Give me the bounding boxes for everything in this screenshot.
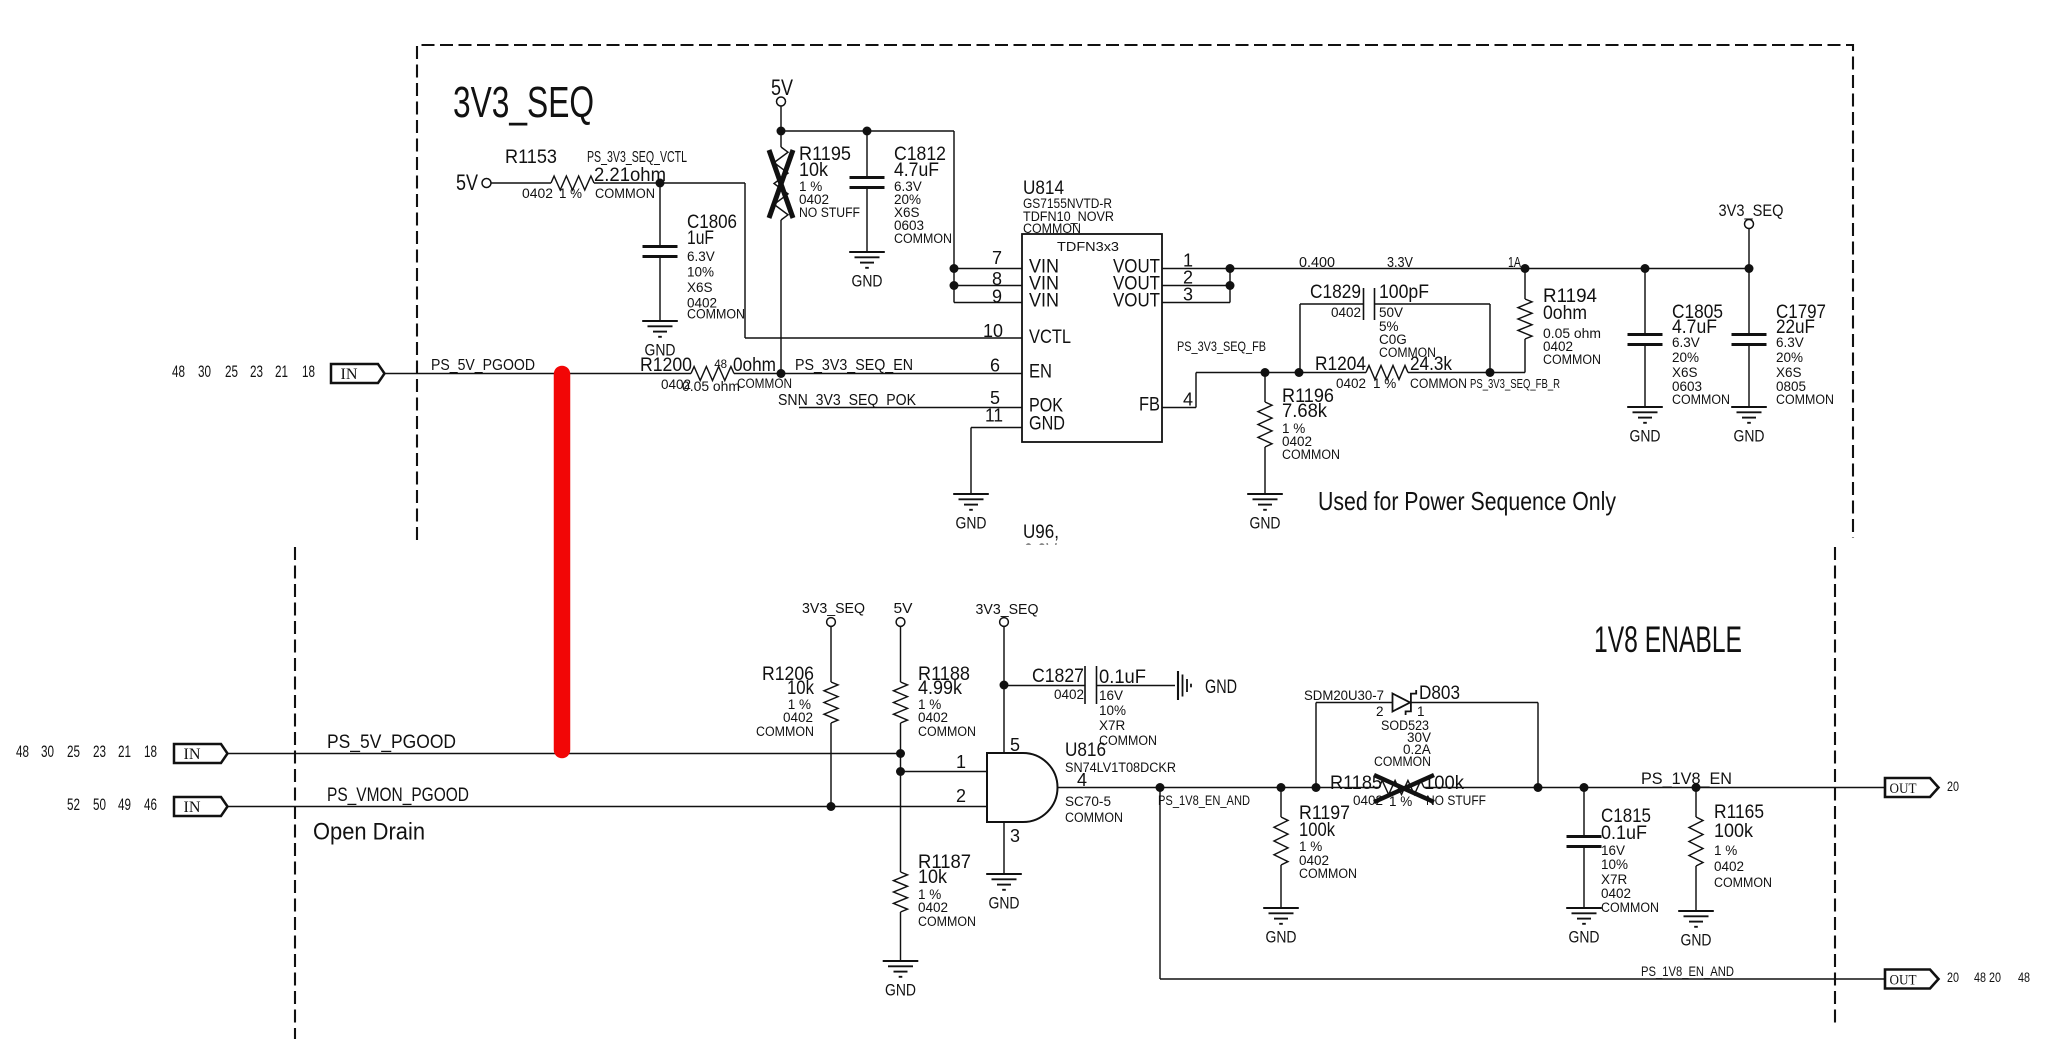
svg-text:48: 48 (16, 742, 29, 761)
svg-text:X7R: X7R (1601, 872, 1628, 887)
svg-text:PS_3V3_SEQ_FB: PS_3V3_SEQ_FB (1177, 338, 1266, 354)
svg-text:TDFN3x3: TDFN3x3 (1057, 239, 1119, 254)
label 0.400 (1299, 255, 1335, 271)
svg-text:23: 23 (250, 362, 263, 381)
svg-text:20: 20 (1989, 970, 2001, 985)
svg-text:10%: 10% (1601, 857, 1628, 872)
svg-text:4.7uF: 4.7uF (894, 159, 939, 181)
ground U816 pin 3 (986, 874, 1022, 913)
ground R1187 (883, 961, 919, 1000)
IN connector PS_5V_PGOOD (top, to EN) (172, 362, 385, 383)
wire U814 GND pin to ground (971, 428, 1022, 495)
resistor R1197 100k (1274, 788, 1357, 909)
svg-text:COMMON: COMMON (1299, 866, 1357, 881)
svg-text:C1829: C1829 (1310, 281, 1361, 303)
svg-text:48: 48 (172, 362, 185, 381)
svg-text:46: 46 (144, 795, 157, 814)
svg-text:0402: 0402 (1336, 376, 1366, 391)
svg-text:10k: 10k (918, 866, 947, 888)
svg-text:0402: 0402 (918, 710, 948, 725)
frame: bottom-left dashed boundary (294, 547, 296, 1039)
ground R1196 (1247, 494, 1283, 533)
svg-text:0402: 0402 (1054, 687, 1084, 702)
svg-text:COMMON: COMMON (595, 186, 655, 201)
svg-text:R1153: R1153 (505, 146, 557, 168)
resistor R1200 0ohm 0402 (640, 354, 792, 394)
svg-text:COMMON: COMMON (1672, 392, 1730, 407)
svg-text:IN: IN (184, 799, 201, 816)
svg-text:5V: 5V (894, 600, 913, 617)
svg-text:7: 7 (992, 248, 1002, 268)
svg-text:48: 48 (1974, 970, 1986, 985)
svg-text:0402: 0402 (783, 710, 813, 725)
ground C1805 (1627, 407, 1663, 446)
net label PS_5V_PGOOD (top) (431, 357, 535, 374)
svg-text:COMMON: COMMON (1379, 345, 1436, 360)
svg-text:NO STUFF: NO STUFF (1426, 793, 1486, 808)
capacitor C1827 0.1uF 16V X7R decoupling (1004, 665, 1175, 748)
svg-text:0ohm: 0ohm (733, 354, 776, 376)
svg-text:1uF: 1uF (687, 227, 714, 249)
svg-text:49: 49 (118, 795, 131, 814)
wire VIN feed column with pin stubs (950, 131, 1023, 303)
OUT connector PS_1V8_EN (1885, 778, 1959, 797)
svg-text:3.3V: 3.3V (1387, 255, 1413, 271)
power 5V source top (771, 75, 793, 131)
svg-text:GND: GND (1681, 931, 1712, 950)
capacitor C1797 22uF 0805 (1732, 264, 1835, 407)
svg-text:PS_3V3_SEQ_EN: PS_3V3_SEQ_EN (795, 357, 913, 374)
svg-text:6.3V: 6.3V (1776, 335, 1804, 350)
svg-text:6: 6 (990, 356, 1000, 376)
wire C1806 top leg (659, 183, 661, 246)
IN connector PS_VMON_PGOOD (67, 795, 228, 816)
resistor R1204 24.3k 0402 (1315, 353, 1467, 391)
U816 pin numbers (956, 735, 1087, 846)
wire PS_5V_PGOOD row to R1188 column (227, 753, 901, 755)
IC U814 GS7155NVTD-R TDFN10 regulator (1022, 177, 1162, 442)
svg-text:1 %: 1 % (1714, 843, 1737, 858)
power 5V source left (456, 170, 551, 195)
svg-text:VIN: VIN (1029, 290, 1059, 312)
svg-text:10: 10 (983, 321, 1003, 341)
svg-text:COMMON: COMMON (737, 376, 792, 391)
svg-text:X6S: X6S (1672, 365, 1698, 380)
svg-text:3V3_SEQ: 3V3_SEQ (802, 600, 865, 617)
net label PS_1V8_EN_AND (at gate output) (1158, 793, 1250, 808)
label 1A (1508, 255, 1521, 271)
svg-text:COMMON: COMMON (1543, 352, 1601, 367)
resistor R1206 10k pull-up (756, 663, 838, 807)
net label PS_5V_PGOOD (bottom) (327, 732, 456, 753)
svg-text:0.1uF: 0.1uF (1601, 822, 1647, 844)
svg-text:25: 25 (225, 362, 238, 381)
resistor R1165 100k (1689, 788, 1772, 912)
svg-text:1 %: 1 % (1389, 794, 1412, 809)
wire PS_1V8_EN_AND output net (1058, 783, 1886, 792)
svg-text:20: 20 (1947, 779, 1959, 794)
svg-text:COMMON: COMMON (1714, 875, 1772, 890)
capacitor C1829 100pF 50V C0G (parallel loop) (1300, 281, 1490, 373)
ground U814 (953, 494, 989, 533)
net label SNN_3V3_SEQ_POK (778, 392, 916, 409)
svg-text:X6S: X6S (687, 280, 713, 295)
ground C1806 (642, 321, 678, 360)
svg-text:PS_3V3_SEQ_VCTL: PS_3V3_SEQ_VCTL (587, 149, 687, 166)
svg-text:10%: 10% (687, 265, 714, 280)
wire 5V rail to R1195 C1812 VIN (777, 127, 955, 136)
svg-text:COMMON: COMMON (1410, 376, 1467, 391)
ground R1197 (1263, 908, 1299, 947)
capacitor C1805 4.7uF 0603 (1628, 264, 1731, 407)
svg-text:SDM20U30-7: SDM20U30-7 (1304, 688, 1384, 703)
wire FB net from U814 FB pin (1162, 368, 1525, 408)
svg-text:1A: 1A (1508, 255, 1521, 271)
ground C1827 (sideways) (1178, 671, 1237, 700)
U814 pin numbers (983, 248, 1193, 426)
svg-text:PS_5V_PGOOD: PS_5V_PGOOD (431, 357, 535, 374)
wire PS_1V8_EN_AND down to bottom OUT (1160, 788, 1885, 980)
net label PS_3V3_SEQ_VCTL (587, 149, 687, 166)
svg-text:30: 30 (41, 742, 54, 761)
svg-text:COMMON: COMMON (756, 724, 814, 739)
svg-text:VOUT: VOUT (1113, 290, 1160, 312)
svg-text:4.99k: 4.99k (918, 677, 962, 699)
svg-text:11: 11 (985, 406, 1003, 426)
svg-text:50: 50 (93, 795, 106, 814)
svg-text:5: 5 (1010, 735, 1020, 755)
svg-text:3V3_SEQ: 3V3_SEQ (1719, 201, 1784, 220)
svg-text:COMMON: COMMON (1099, 733, 1157, 748)
svg-text:COMMON: COMMON (1065, 810, 1123, 825)
resistor R1195 10k NO STUFF (crossed out) (769, 131, 860, 220)
svg-text:SC70-5: SC70-5 (1065, 794, 1111, 809)
svg-text:48: 48 (2018, 970, 2030, 985)
svg-text:10k: 10k (799, 159, 828, 181)
svg-text:NO STUFF: NO STUFF (799, 205, 860, 220)
svg-text:U816: U816 (1065, 739, 1106, 761)
svg-text:2: 2 (956, 786, 966, 806)
power 3V3_SEQ flag (U816 pin 5) (976, 601, 1039, 753)
power 3V3_SEQ flag (pull-up R1206) (802, 600, 865, 682)
svg-text:SNN_3V3_SEQ_POK: SNN_3V3_SEQ_POK (778, 392, 916, 409)
svg-text:0.400: 0.400 (1299, 255, 1335, 271)
svg-text:21: 21 (118, 742, 131, 761)
frame: bottom-right dashed boundary (1834, 547, 1836, 1028)
svg-text:IN: IN (341, 366, 358, 383)
svg-text:100k: 100k (1424, 772, 1464, 794)
svg-text:0402: 0402 (1353, 793, 1383, 808)
power 5V flag (pull-up R1188) (894, 600, 913, 682)
ground C1815 (1566, 908, 1602, 947)
svg-text:PS_5V_PGOOD: PS_5V_PGOOD (327, 732, 456, 753)
svg-text:PS_1V8_EN_AND: PS_1V8_EN_AND (1158, 793, 1250, 808)
svg-text:GND: GND (1734, 427, 1765, 446)
svg-text:X7R: X7R (1099, 718, 1126, 733)
svg-text:2: 2 (1376, 704, 1384, 719)
resistor R1196 7.68k 0402 (1258, 373, 1340, 495)
title 1V8 ENABLE (1594, 619, 1742, 660)
svg-text:1 %: 1 % (1299, 839, 1322, 854)
svg-text:16V: 16V (1099, 688, 1123, 703)
wire POK net (799, 407, 1022, 409)
svg-text:GND: GND (1250, 514, 1281, 533)
svg-text:5V: 5V (456, 170, 478, 195)
svg-text:4: 4 (1183, 390, 1193, 410)
svg-text:GND: GND (956, 514, 987, 533)
svg-text:20: 20 (1947, 970, 1959, 985)
node junction at R1153 / C1806 (656, 179, 665, 188)
net label PS_VMON_PGOOD (327, 785, 469, 806)
svg-text:3: 3 (1183, 285, 1193, 305)
svg-text:5V: 5V (771, 75, 793, 100)
svg-text:100k: 100k (1714, 820, 1753, 842)
svg-text:100pF: 100pF (1379, 281, 1429, 303)
svg-text:0402: 0402 (1714, 859, 1744, 874)
svg-text:COMMON: COMMON (918, 724, 976, 739)
wire U816 pin 3 to ground (1003, 822, 1005, 874)
svg-text:COMMON: COMMON (1282, 447, 1340, 462)
capacitor C1815 0.1uF 16V X7R (1567, 788, 1660, 916)
svg-text:52: 52 (67, 795, 80, 814)
svg-text:OUT: OUT (1890, 781, 1917, 797)
svg-text:1 %: 1 % (1373, 376, 1396, 391)
svg-text:48: 48 (714, 359, 727, 371)
svg-text:3: 3 (1010, 826, 1020, 846)
svg-text:X6S: X6S (1776, 365, 1802, 380)
svg-text:C1827: C1827 (1032, 665, 1084, 687)
svg-text:PS_1V8_EN_AND: PS_1V8_EN_AND (1641, 964, 1734, 979)
svg-text:18: 18 (144, 742, 157, 761)
wire R1195 down to EN net (780, 220, 782, 373)
resistor R1188 4.99k pull-up (894, 663, 977, 739)
svg-text:0402: 0402 (918, 900, 948, 915)
svg-text:GND: GND (1205, 677, 1237, 698)
power 3V3_SEQ flag top right (1719, 201, 1784, 269)
svg-text:IN: IN (184, 746, 201, 763)
svg-text:Open Drain: Open Drain (313, 819, 425, 846)
wire R1188 column through PGOOD rows to R1187 (896, 723, 905, 872)
resistor R1153 2.21ohm 0402 1% (505, 146, 666, 201)
resistor R1185 100k NO STUFF (crossed out) (1330, 772, 1486, 809)
svg-text:20%: 20% (1672, 350, 1699, 365)
svg-text:16V: 16V (1601, 843, 1625, 858)
text U96 clipped fragment (1023, 521, 1060, 562)
net label PS_1V8_EN_AND (bottom) (1641, 964, 1734, 979)
svg-text:EN: EN (1029, 361, 1052, 383)
svg-text:10k: 10k (787, 677, 814, 699)
svg-text:FB: FB (1139, 394, 1160, 416)
svg-text:PS_3V3_SEQ_FB_R: PS_3V3_SEQ_FB_R (1470, 376, 1560, 391)
svg-text:0402: 0402 (1601, 886, 1631, 901)
wire 3.3V VOUT bus (1162, 264, 1749, 303)
net label PS_3V3_SEQ_FB_R (1470, 376, 1560, 391)
svg-text:0402: 0402 (1331, 305, 1361, 320)
svg-text:PS_1V8_EN: PS_1V8_EN (1641, 769, 1732, 788)
svg-text:GND: GND (1266, 928, 1297, 947)
svg-text:100k: 100k (1299, 819, 1335, 841)
svg-text:25: 25 (67, 742, 80, 761)
svg-text:6.3V: 6.3V (1672, 335, 1700, 350)
svg-text:1: 1 (1417, 704, 1425, 719)
svg-text:6.3V: 6.3V (687, 249, 715, 264)
svg-text:R1204: R1204 (1315, 353, 1366, 375)
text Used for Power Sequence Only (1318, 486, 1616, 516)
svg-text:1 %: 1 % (559, 186, 582, 201)
svg-text:0402: 0402 (522, 186, 553, 201)
wire U816 input 1 (901, 771, 988, 773)
svg-text:3V3_SEQ: 3V3_SEQ (453, 78, 594, 127)
svg-text:GND: GND (1630, 427, 1661, 446)
svg-text:23: 23 (93, 742, 106, 761)
wire PS_VMON_PGOOD row to U816 input 2 (227, 802, 987, 811)
svg-text:COMMON: COMMON (1374, 754, 1431, 769)
svg-text:R1200: R1200 (640, 354, 692, 376)
svg-text:7.68k: 7.68k (1282, 400, 1327, 422)
ground R1165 (1678, 911, 1714, 950)
svg-text:GND: GND (989, 894, 1020, 913)
svg-text:Used for Power Sequence Only: Used for Power Sequence Only (1318, 486, 1616, 516)
svg-text:D803: D803 (1419, 682, 1460, 704)
svg-text:COMMON: COMMON (687, 307, 745, 322)
svg-text:1V8 ENABLE: 1V8 ENABLE (1594, 619, 1742, 660)
svg-text:21: 21 (275, 362, 288, 381)
svg-text:10%: 10% (1099, 703, 1126, 718)
wire C1806 bottom leg (659, 257, 661, 322)
wire PS_3V3_SEQ_VCTL to U814 VCTL pin (594, 183, 1022, 338)
frame: 3V3_SEQ dashed boundary box (417, 45, 1853, 540)
svg-text:OUT: OUT (1890, 973, 1917, 989)
svg-text:0.05 ohm: 0.05 ohm (682, 379, 740, 394)
diode D803 SDM20U30-7 SOD523 schottky (1304, 682, 1538, 788)
svg-text:PS_VMON_PGOOD: PS_VMON_PGOOD (327, 785, 469, 806)
svg-text:COMMON: COMMON (918, 914, 976, 929)
net label PS_3V3_SEQ_FB (1177, 338, 1266, 354)
gate U816 SN74LV1T08DCKR AND (987, 739, 1176, 825)
svg-text:COMMON: COMMON (1601, 900, 1659, 915)
svg-text:9: 9 (992, 287, 1002, 307)
label 3.3V (1387, 255, 1413, 271)
svg-text:COMMON: COMMON (1776, 392, 1834, 407)
svg-text:VCTL: VCTL (1029, 326, 1071, 348)
svg-text:GND: GND (885, 981, 916, 1000)
svg-text:0ohm: 0ohm (1543, 302, 1587, 324)
resistor R1194 0ohm 0402 (1518, 264, 1601, 373)
svg-text:50V: 50V (1379, 305, 1403, 320)
OUT connector PS_1V8_EN_AND (1885, 970, 2030, 989)
IN connector PS_5V_PGOOD (bottom) (16, 742, 228, 763)
svg-text:3V3_SEQ: 3V3_SEQ (976, 601, 1039, 618)
svg-text:18: 18 (302, 362, 315, 381)
capacitor C1812 4.7uF 6.3V 0603 (850, 131, 953, 252)
net label PS_3V3_SEQ_EN (795, 357, 913, 374)
svg-text:GND: GND (852, 272, 883, 291)
highlight: red review marker (554, 374, 571, 750)
wire EN net: IN to R1200 to U814 EN (384, 369, 1022, 378)
svg-text:20%: 20% (1776, 350, 1803, 365)
ground C1812 (849, 252, 885, 291)
resistor R1187 10k (894, 851, 977, 961)
svg-text:GND: GND (1569, 928, 1600, 947)
svg-text:GND: GND (1029, 413, 1065, 435)
svg-text:R1185: R1185 (1330, 772, 1382, 794)
ground C1797 (1731, 407, 1767, 446)
svg-text:1: 1 (956, 752, 966, 772)
text Open Drain (313, 819, 425, 846)
svg-text:COMMON: COMMON (894, 231, 952, 246)
net label PS_1V8_EN (1641, 769, 1732, 788)
svg-text:30: 30 (198, 362, 211, 381)
svg-text:0.1uF: 0.1uF (1099, 666, 1146, 688)
capacitor C1806 1uF 6.3V 0402 (643, 211, 746, 322)
title 3V3_SEQ (453, 78, 594, 127)
